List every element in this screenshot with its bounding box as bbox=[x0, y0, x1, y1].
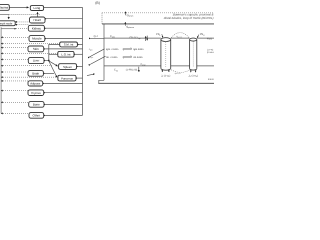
wire vertical to Bone bbox=[46, 103, 83, 105]
node portal junction bbox=[48, 60, 50, 62]
wire portal junction to Liver bbox=[46, 60, 49, 62]
lymph row Pancreas bbox=[1, 76, 56, 78]
box S.M. int bbox=[60, 42, 78, 47]
svg-text:S.M. int: S.M. int bbox=[64, 43, 74, 47]
lymph row Other bbox=[1, 112, 29, 114]
lymph row Skin bbox=[1, 47, 28, 49]
wire Pancreas diagonal to junction bbox=[49, 61, 57, 77]
wire vertical to S.M. int bbox=[79, 44, 83, 46]
small pore bottom arrows bbox=[190, 70, 192, 73]
wire portal: L.G. int to junction bbox=[49, 53, 58, 55]
svg-text:(B): (B) bbox=[95, 1, 100, 5]
interstitial bottom line bbox=[98, 82, 214, 84]
svg-text:Ab·FcRn: Ab·FcRn bbox=[133, 56, 143, 59]
svg-text:Qplasma: Qplasma bbox=[126, 25, 134, 29]
wire Spleen diagonal to junction bbox=[49, 61, 58, 66]
iso circular flow top arc bbox=[171, 33, 189, 38]
endothelial bottom membrane bbox=[104, 65, 214, 67]
box Kidney bbox=[28, 25, 44, 31]
wire vertical to Heart bbox=[47, 18, 83, 20]
wire vertical to Spleen bbox=[78, 66, 82, 68]
interstitial left wall bbox=[99, 80, 104, 83]
lymph diagonal arrow 1 bbox=[90, 49, 105, 57]
svg-text:distal tubules, loop of Henle: distal tubules, loop of Henle (BCPDL) bbox=[164, 16, 214, 20]
lymph row Liver bbox=[1, 58, 28, 60]
svg-text:Fluid: Fluid bbox=[207, 37, 213, 40]
svg-text:Interstit: Interstit bbox=[208, 78, 214, 81]
svg-text:Brain: Brain bbox=[32, 72, 39, 76]
lymph dashed line bbox=[102, 12, 214, 14]
wire lymph down into Lymph node bbox=[8, 15, 10, 20]
wire Plasma to Lung bbox=[9, 6, 28, 8]
wire vertical to Kidney bbox=[46, 27, 83, 29]
arrow into small pore top bbox=[197, 35, 198, 38]
lymph row Thymus bbox=[1, 90, 28, 92]
lymph row Spleen bbox=[1, 65, 53, 67]
vascular left wall bbox=[103, 24, 105, 80]
svg-text:Skin: Skin bbox=[33, 47, 39, 51]
box Liver bbox=[28, 58, 44, 64]
box Muscle bbox=[29, 36, 45, 42]
left collecting vertical bbox=[0, 27, 2, 113]
wire Brain row bbox=[45, 72, 54, 74]
box Pancreas bbox=[58, 75, 76, 81]
wire vertical to L.G. int bbox=[76, 53, 83, 55]
svg-text:Other: Other bbox=[33, 114, 41, 118]
lymph stub Lymph node lower bbox=[15, 24, 28, 26]
wire vertical to Skin bbox=[45, 48, 82, 50]
lymph row Adipose bbox=[1, 80, 28, 82]
box Lymph node bbox=[0, 21, 15, 26]
svg-text:L.G. int: L.G. int bbox=[61, 53, 70, 57]
svg-text:Thymus: Thymus bbox=[31, 91, 42, 95]
box Adipose bbox=[28, 81, 43, 86]
connector lymph-plasma bbox=[101, 13, 103, 24]
arrow Q-J out bbox=[91, 37, 105, 39]
svg-text:Plasma: Plasma bbox=[0, 6, 8, 10]
endothelial top membrane bbox=[104, 37, 214, 39]
box Brain bbox=[28, 71, 43, 77]
svg-text:Liver: Liver bbox=[33, 59, 40, 63]
wire portal: S.M. int to junction bbox=[49, 45, 60, 61]
lymph diagonal arrow 2 bbox=[90, 56, 105, 64]
cylinder small pore bbox=[190, 38, 197, 70]
svg-text:JL·(1-σL): JL·(1-σL) bbox=[161, 75, 170, 79]
svg-text:Bone: Bone bbox=[33, 103, 40, 107]
box Thymus bbox=[28, 90, 44, 96]
svg-text:(1-FR): (1-FR) bbox=[207, 48, 214, 51]
svg-text:Spleen: Spleen bbox=[63, 65, 72, 69]
lymph row Brain bbox=[1, 71, 28, 73]
box Skin bbox=[28, 46, 44, 52]
box Other bbox=[29, 113, 44, 119]
lymph row Kidney bbox=[1, 28, 16, 30]
arrow Q_lymph bbox=[125, 12, 127, 16]
wire Heart to Lung bbox=[37, 12, 39, 17]
down arrow after label bbox=[138, 67, 140, 72]
svg-text:JS·(1-σS): JS·(1-σS) bbox=[188, 75, 198, 79]
wire vertical to Adipose bbox=[44, 82, 82, 84]
svg-text:Jlym: Jlym bbox=[89, 56, 93, 60]
cylinder large pore bbox=[161, 38, 171, 71]
svg-text:Pancreas: Pancreas bbox=[61, 76, 73, 80]
box L.G. int bbox=[58, 51, 74, 57]
box Spleen bbox=[59, 64, 77, 70]
lymph row Bone bbox=[1, 101, 29, 103]
wire vertical to Other bbox=[45, 114, 82, 116]
svg-text:Lymph node: Lymph node bbox=[0, 21, 13, 25]
iso circular flow bottom arc bbox=[171, 70, 189, 73]
box Heart bbox=[30, 17, 46, 23]
svg-text:Qlymph: Qlymph bbox=[127, 14, 134, 18]
arrow Q_plasma bbox=[124, 22, 126, 26]
svg-text:Heart: Heart bbox=[34, 18, 42, 22]
svg-text:IgG·FcRn: IgG·FcRn bbox=[133, 48, 144, 51]
lymph row Muscle bbox=[1, 36, 29, 38]
wire lymph top line bbox=[0, 14, 9, 16]
arrow into large pore top bbox=[162, 34, 163, 37]
uptake arrows pair bbox=[145, 36, 147, 41]
svg-text:Ab + FcRn: Ab + FcRn bbox=[106, 56, 118, 59]
lymph row L.G. int bbox=[1, 52, 58, 54]
wire vertical to Pancreas bbox=[78, 77, 83, 79]
svg-text:Adipose: Adipose bbox=[30, 82, 41, 86]
wire vertical to Thymus bbox=[45, 92, 82, 94]
svg-text:Jlym: Jlym bbox=[89, 48, 93, 52]
small arrow into interstitial wall bbox=[87, 74, 95, 76]
plasma solid line bbox=[102, 23, 214, 25]
lymph row S.M. int bbox=[1, 43, 60, 45]
box Lung bbox=[30, 6, 43, 11]
svg-text:(Endoso: (Endoso bbox=[207, 51, 214, 54]
box Bone bbox=[29, 102, 44, 108]
box Plasma bbox=[0, 5, 9, 11]
lymph stub Lymph node to Heart bbox=[15, 21, 29, 23]
svg-text:IgG + FcRn: IgG + FcRn bbox=[106, 48, 119, 51]
svg-text:Kidney: Kidney bbox=[32, 26, 42, 30]
svg-text:Muscle: Muscle bbox=[32, 37, 42, 41]
wire Lung to right vertical bbox=[44, 8, 83, 116]
wire vertical to Muscle bbox=[46, 38, 82, 40]
svg-text:Lung: Lung bbox=[34, 6, 41, 10]
large pore bottom arrows bbox=[161, 69, 163, 72]
